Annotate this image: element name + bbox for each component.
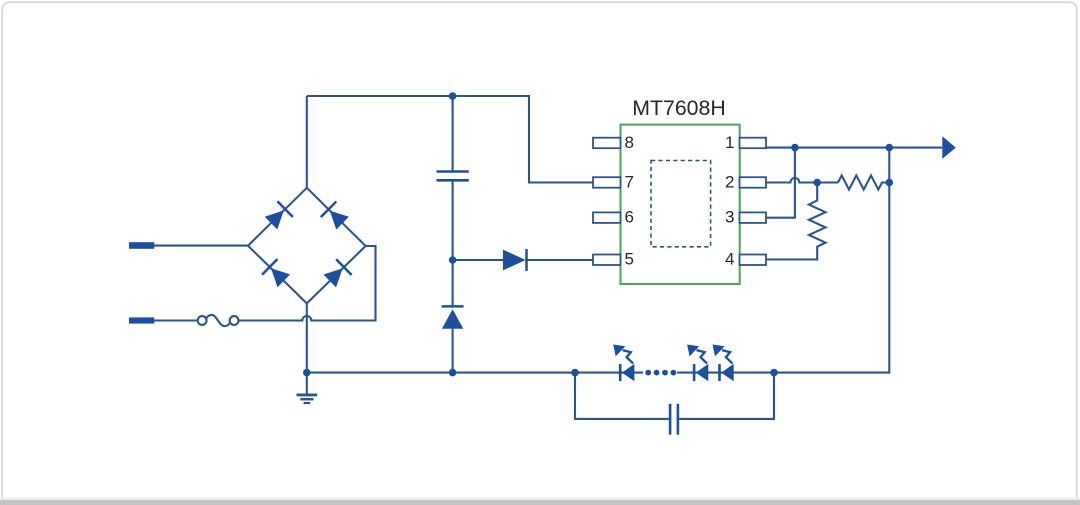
junction dot: top rail / C1 bbox=[449, 92, 457, 100]
pin 1 stub bbox=[740, 138, 767, 149]
svg-text:5: 5 bbox=[625, 249, 634, 268]
bridge diode D-TR (right AC to + top) bbox=[321, 202, 349, 230]
wire: diode D1 to IC pin 5 bbox=[527, 259, 594, 261]
wire: top input to bridge left vertex bbox=[154, 245, 248, 247]
IC U1 MT7608H body bbox=[621, 125, 740, 284]
capacitor C1 bottom lead bbox=[452, 182, 454, 261]
diode D2 bottom lead bbox=[452, 329, 454, 373]
LED LED2 bbox=[687, 345, 708, 382]
svg-text:4: 4 bbox=[725, 249, 734, 268]
bridge diode D-TL (lower-left AC to + top) bbox=[265, 201, 293, 229]
wire: C1 node to diode D1 bbox=[453, 259, 503, 261]
wire: bridge - output down to ground rail bbox=[306, 303, 308, 372]
bridge rectifier diamond outline bbox=[248, 188, 366, 304]
output arrow bbox=[942, 136, 956, 159]
wire: pin1 node down to pin 3 bbox=[766, 148, 795, 218]
fuse F1 bbox=[198, 315, 239, 326]
junction dot: R1 / output branch bbox=[886, 179, 894, 187]
AC input terminal bottom (N) bbox=[129, 317, 154, 323]
junction dot: pin2 / R1 / R2 bbox=[813, 179, 821, 187]
LED LED3 bbox=[713, 345, 734, 382]
LED LED1 bbox=[613, 345, 634, 382]
junction dot: C1 / D1 / D2 bbox=[449, 256, 457, 264]
junction dot: LED string left / C2 bbox=[571, 369, 579, 377]
AC input terminal top (L) bbox=[129, 242, 154, 249]
capacitor C1 plates bbox=[437, 172, 469, 181]
wire: fuse to right vertex of bridge (hops over bridge bottom line) bbox=[239, 246, 376, 321]
junction dot: pin1 / pin3 branch bbox=[791, 144, 799, 152]
wire: ground rail bbox=[307, 372, 643, 374]
bridge diode D-BL (- bottom to left AC) bbox=[262, 259, 290, 287]
pin 5 stub bbox=[593, 255, 621, 266]
junction dot: D2 / rail bbox=[449, 369, 457, 377]
pin 6 stub bbox=[593, 212, 621, 223]
bottom shadow band bbox=[0, 498, 1080, 500]
svg-text:2: 2 bbox=[725, 172, 734, 191]
svg-text:7: 7 bbox=[625, 172, 634, 191]
ellipsis dots (LED string continues) bbox=[645, 370, 676, 376]
wire: pin 1 to output arrow bbox=[766, 147, 942, 149]
junction dot: LED string right / C2 bbox=[770, 369, 778, 377]
wire: top rail to IC pin 7 bbox=[307, 96, 593, 183]
resistor R2 (vertical) + wire to pin 4 bbox=[766, 183, 826, 260]
pin 3 stub bbox=[740, 212, 767, 223]
pin 7 stub bbox=[593, 177, 621, 188]
capacitor C2 left lead bbox=[575, 373, 669, 419]
svg-text:MT7608H: MT7608H bbox=[632, 96, 726, 120]
diode D2 top lead bbox=[452, 260, 454, 305]
capacitor C1 top lead bbox=[452, 96, 454, 170]
pin 8 stub bbox=[593, 138, 621, 149]
svg-text:8: 8 bbox=[625, 133, 634, 152]
bridge diode D-BR (- bottom to right AC) bbox=[324, 259, 352, 287]
pin 4 stub bbox=[740, 255, 767, 266]
diode D1 (series, horizontal) bbox=[503, 249, 527, 271]
ground bbox=[297, 373, 318, 403]
diode D2 (freewheel, vertical, pointing up) bbox=[442, 306, 464, 328]
wire: pin 2 to R1 (hops over pin1-pin3 wire) bbox=[766, 178, 838, 183]
wire: output node down to LED string bbox=[774, 148, 889, 373]
junction dot: output / LED branch bbox=[886, 144, 894, 152]
wire: bottom input to fuse bbox=[154, 319, 198, 321]
svg-text:1: 1 bbox=[725, 133, 734, 152]
wire: LED string right section bbox=[677, 372, 774, 374]
junction dot: ground bbox=[303, 369, 311, 377]
capacitor C2 plates bbox=[670, 404, 678, 435]
svg-text:6: 6 bbox=[625, 208, 634, 227]
wire: bridge + output up to top rail bbox=[306, 96, 308, 188]
svg-text:3: 3 bbox=[725, 208, 734, 227]
pin 2 stub bbox=[740, 177, 767, 188]
resistor R1 (horizontal) bbox=[838, 175, 889, 189]
capacitor C2 right lead bbox=[679, 373, 774, 419]
IC internal dashed block bbox=[651, 161, 711, 247]
